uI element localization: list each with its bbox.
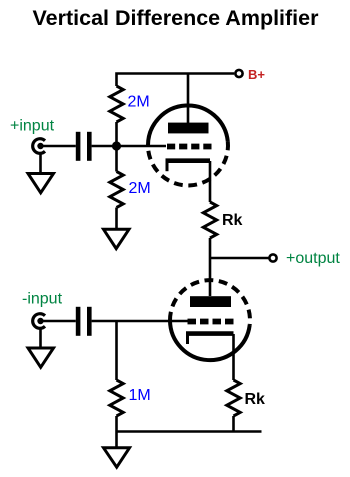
- terminal B+: [235, 70, 242, 77]
- wire: Rk2 to bottom rail: [232, 416, 235, 432]
- triode V1 envelope dashed arc: [148, 142, 228, 186]
- triode V2 plate: [190, 296, 231, 307]
- wire: -input to capacitor C2: [42, 320, 76, 323]
- wire: node A to R2: [115, 146, 118, 172]
- wire: output tap: [210, 257, 269, 260]
- svg-text:2M: 2M: [129, 180, 151, 197]
- svg-text:B+: B+: [248, 67, 265, 82]
- node A junction dot: [112, 141, 121, 150]
- ground under R2: [104, 229, 130, 248]
- resistor R1 2M (upper): [110, 86, 123, 122]
- ground under -input: [28, 348, 54, 367]
- terminal +output: [269, 254, 276, 261]
- terminal +input jack: [33, 139, 45, 154]
- triode V1 envelope solid arc: [148, 105, 228, 146]
- resistor Rk2: [227, 380, 240, 416]
- wire: R2 to ground: [115, 208, 118, 230]
- ground bottom: [104, 448, 130, 467]
- resistor R2 2M (lower): [110, 172, 123, 208]
- terminal -input jack: [33, 314, 45, 329]
- wire: -input jack to ground: [39, 328, 42, 348]
- wire: bottom rail: [117, 430, 262, 433]
- resistor R3 1M: [110, 380, 123, 416]
- ground under +input: [28, 174, 54, 193]
- resistor Rk1: [203, 202, 216, 238]
- svg-text:-input: -input: [22, 291, 63, 308]
- wire: V1 cathode to Rk1: [209, 161, 212, 202]
- wire: B+ supply rail: [117, 74, 235, 87]
- svg-text:1M: 1M: [129, 387, 151, 404]
- triode V1 cathode: [166, 161, 211, 172]
- svg-text:+input: +input: [10, 118, 55, 135]
- svg-text:+output: +output: [286, 250, 340, 267]
- triode V2 envelope solid arc: [170, 321, 250, 361]
- wire: node B to R3 1M: [115, 321, 118, 380]
- wire: R1 to node A: [115, 122, 118, 146]
- capacitor C2: [76, 307, 92, 336]
- triode V2 cathode: [186, 334, 234, 344]
- wire: Rk1 to V2 plate / output node: [209, 238, 212, 296]
- wire: +input to capacitor C1: [42, 145, 76, 148]
- svg-text:2M: 2M: [128, 94, 150, 111]
- svg-text:Rk: Rk: [222, 212, 243, 229]
- triode V1 grid: [167, 144, 212, 150]
- wire: C2 to V2 grid node B: [92, 320, 188, 323]
- wire: plate lead V1 from rail: [187, 74, 190, 124]
- triode V2 grid: [188, 319, 234, 325]
- svg-text:Vertical Difference Amplifier: Vertical Difference Amplifier: [33, 6, 320, 30]
- wire: R3 to ground node: [115, 416, 118, 448]
- wire: +input jack to ground: [39, 153, 42, 174]
- triode V2 envelope dashed arc: [170, 280, 250, 325]
- svg-text:Rk: Rk: [245, 391, 266, 408]
- wire: V2 cathode to Rk2: [232, 334, 235, 380]
- wire: C1 to grid node A: [92, 145, 166, 148]
- triode V1 plate: [168, 123, 209, 134]
- capacitor C1: [76, 132, 92, 161]
